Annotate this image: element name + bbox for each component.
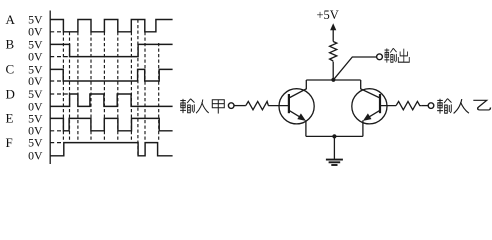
transistor Q2 (right NPN) circle — [352, 89, 387, 124]
signal E waveform — [50, 118, 172, 130]
svg-text:E: E — [6, 111, 14, 126]
signal C waveform — [50, 69, 172, 81]
signal B waveform — [50, 44, 172, 56]
input B terminal circle — [428, 103, 434, 109]
transistor Q2 base bar — [379, 94, 381, 113]
transistor Q1 emitter lead with arrow — [289, 110, 304, 119]
ground symbol — [326, 160, 343, 165]
transistor Q1 base bar — [288, 94, 290, 113]
svg-text:B: B — [6, 37, 15, 52]
transistor Q2 collector lead — [361, 80, 380, 98]
svg-text:+5V: +5V — [317, 8, 339, 22]
signal F waveform — [50, 143, 172, 156]
signal B dashed reference level — [50, 56, 69, 58]
node: collector junction dot — [331, 78, 335, 82]
wire: resistor R2 to Q1 base — [268, 105, 289, 107]
+5V supply arrow — [330, 23, 336, 30]
resistor R1 (collector load, vertical zigzag) — [330, 42, 337, 62]
voltage axis (vertical) — [49, 11, 51, 165]
signal D waveform — [50, 94, 172, 106]
svg-text:0V: 0V — [28, 149, 43, 163]
resistor R2 (base, horizontal zigzag) — [246, 101, 268, 109]
output terminal circle — [377, 54, 383, 60]
resistor R3 (base, horizontal zigzag) — [396, 101, 421, 109]
wire: Q2 base to resistor R3 — [380, 105, 396, 107]
collector bus wire (top) — [306, 79, 360, 81]
wire: resistor R3 to input B terminal — [421, 105, 428, 107]
transistor Q1 (left NPN) circle — [279, 89, 314, 124]
signal A dashed reference level — [50, 31, 63, 33]
svg-text:0V: 0V — [28, 74, 43, 88]
svg-text:D: D — [6, 86, 15, 101]
transistor Q2 emitter lead with arrow — [365, 110, 380, 119]
signal C dashed reference level — [50, 80, 63, 82]
svg-text:A: A — [6, 12, 16, 27]
signal E dashed reference level — [50, 130, 63, 132]
wire: output diagonal — [333, 57, 376, 80]
wire: resistor to collector node — [332, 62, 334, 81]
signal D dashed reference level — [50, 93, 69, 95]
dashed timing grid lines — [63, 20, 158, 156]
signal F dashed reference level — [50, 142, 64, 144]
node: emitter junction dot — [332, 134, 336, 138]
signal A waveform — [50, 20, 172, 32]
label: input B (CJK) — [437, 99, 451, 114]
label: input A (CJK) — [212, 100, 224, 114]
wire: input A terminal to resistor R2 — [234, 105, 246, 107]
transistor Q1 collector lead — [289, 80, 306, 98]
svg-text:C: C — [6, 62, 15, 77]
svg-text:5V: 5V — [28, 136, 43, 150]
svg-text:F: F — [6, 135, 13, 150]
emitter bus wire (bottom) — [306, 135, 363, 137]
wire: to ground — [333, 136, 335, 159]
input A terminal circle — [228, 103, 234, 109]
label: output (CJK) — [384, 48, 396, 62]
